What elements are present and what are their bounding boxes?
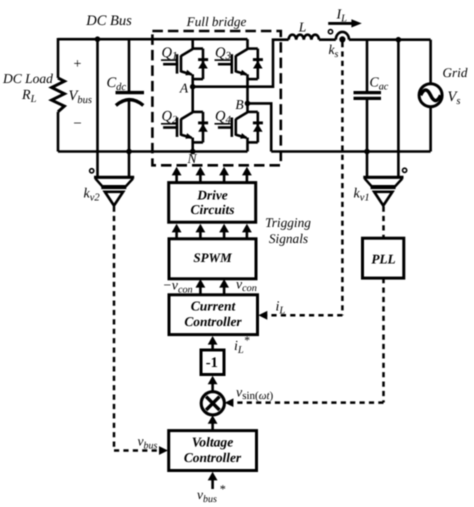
arrow vbus into Voltage Controller [159,446,168,455]
svg-text:Full bridge: Full bridge [186,14,247,29]
arrows Current Controller to SPWM [196,279,230,295]
dashed wire kv1 to PLL [382,207,385,239]
svg-text:Signals: Signals [269,231,308,246]
capacitor Cdc [116,93,145,106]
transistor Q3 [218,49,263,80]
node B [245,101,251,107]
wire right leg rail middle [246,74,249,112]
wire grid branch upper [429,40,432,84]
wire node B to bottom AC [248,103,272,151]
wire top DC bus [58,38,248,41]
transistor Q1 [163,49,208,80]
wire node A to top AC [193,40,289,87]
arrow vsin into multiplier [225,398,234,407]
wire right leg rail bottom [246,138,249,152]
node Cac bottom junction [364,149,370,155]
wire left DC branch upper [57,38,60,78]
capacitor Cac [354,93,382,99]
wire grid branch lower [429,107,432,152]
sensor kv1 polarity circle [403,168,407,172]
arrow IL current direction [328,22,353,25]
arrow -1 to Current Controller [208,336,218,350]
svg-text:-1: -1 [206,355,218,371]
node A [190,84,196,90]
sensor ks polarity circle [328,30,332,34]
wire left leg rail top [191,39,194,49]
wire left leg rail middle [191,74,194,112]
dashed wire ks to Current Controller [265,42,342,315]
node N [190,149,196,155]
wire right leg rail top [246,39,249,49]
arrow multiplier to -1 [208,376,218,392]
svg-text:Trigging: Trigging [265,215,311,230]
sensor ks loop [336,32,349,40]
underline Q4 [215,123,231,125]
block Voltage Controller [169,431,257,471]
wire Cac branch lower [366,98,369,176]
transistor Q2 [163,112,208,142]
arrows bridge gate signals [172,167,252,183]
wire kv2 left leg from top bus [96,39,99,176]
svg-text:+: + [74,57,82,72]
resistor RL [52,78,65,112]
source Vs AC [419,84,442,107]
block SPWM [169,239,256,279]
wire Cac branch upper [366,40,369,92]
svg-text:Drive: Drive [196,187,228,202]
svg-text:PLL: PLL [371,252,395,267]
node ks [339,36,345,42]
wire bottom AC bus [271,150,430,153]
node Cac top [396,37,402,43]
inductor L [289,35,319,40]
dashed wire PLL to multiplier [230,278,384,403]
svg-text:Controller: Controller [184,314,242,329]
wire ks to grid [349,38,431,41]
svg-text:B: B [235,97,243,112]
arrow iL into Current Controller [258,311,267,320]
sensor kv2 polarity circle [90,169,94,173]
svg-text:N: N [186,151,197,166]
svg-text:A: A [179,81,189,96]
block Current Controller [169,295,258,335]
arrows SPWM to Drive Circuits [172,224,252,239]
dashed box full bridge [152,31,280,165]
sensor kv1 [363,177,403,205]
svg-text:Voltage: Voltage [192,435,234,450]
arrow Voltage Controller to multiplier [208,415,218,430]
svg-text:−: − [73,116,81,132]
node DC bus junction [95,36,101,42]
svg-text:Grid: Grid [443,65,468,80]
underline Q2 [161,123,177,125]
svg-text:SPWM: SPWM [193,250,232,265]
sensor kv2 [94,177,134,205]
svg-text:Controller: Controller [184,450,242,465]
node Cdc bottom junction [126,149,132,155]
svg-text:DC Bus: DC Bus [85,13,132,29]
svg-text:L: L [298,20,307,35]
wire L to ks [319,38,336,41]
block PLL [363,238,404,278]
wire left DC branch lower [57,112,60,152]
multiplier [201,392,224,415]
wire kv1 right leg from top wire [397,40,400,177]
underline Q3 [215,59,231,61]
wire Cdc branch lower [128,100,131,177]
block Drive Circuits [169,183,256,223]
svg-text:Current: Current [191,298,237,313]
underline Q1 [161,59,177,61]
dashed wire kv2 to Voltage Controller [114,207,160,451]
wire bottom DC bus [58,150,248,153]
transistor Q4 [218,112,263,142]
block -1 [201,350,224,375]
wire Cdc branch upper [128,39,131,92]
arrow vbus* input [208,472,218,489]
wire left leg rail bottom [191,138,194,152]
svg-text:DC Load: DC Load [2,71,53,86]
svg-text:Circuits: Circuits [191,202,235,217]
